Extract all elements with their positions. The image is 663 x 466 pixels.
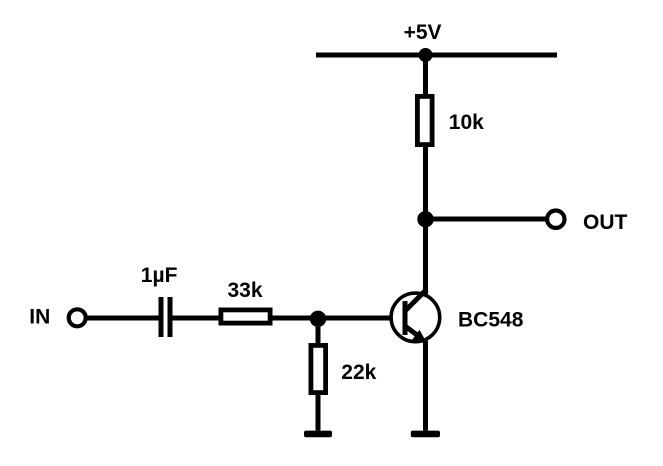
svg-text:10k: 10k [449,111,484,134]
svg-text:+5V: +5V [404,21,442,44]
svg-text:22k: 22k [341,361,376,384]
svg-text:IN: IN [29,306,50,329]
svg-text:OUT: OUT [583,211,628,234]
svg-text:33k: 33k [228,279,263,302]
svg-text:1µF: 1µF [141,264,178,287]
svg-text:BC548: BC548 [458,308,524,331]
